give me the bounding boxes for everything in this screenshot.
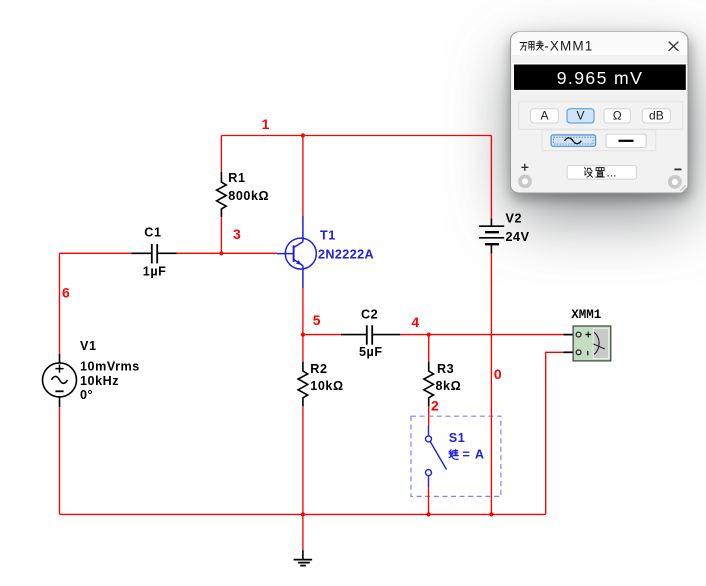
S1 key label 键 = A — [449, 450, 458, 460]
wire: V1 bottom — [59, 407, 61, 514]
XMM1 minus lead — [563, 351, 576, 353]
button A — [531, 109, 559, 123]
wire: V1 to C1 — [60, 252, 132, 254]
svg-text:R1: R1 — [228, 171, 245, 185]
svg-text:1: 1 — [262, 116, 270, 132]
dialog title 万用表-XMM1 — [520, 41, 543, 51]
svg-text:-XMM1: -XMM1 — [544, 39, 593, 54]
svg-text:10mVrms: 10mVrms — [80, 359, 140, 373]
instrument XMM1 icon — [573, 326, 611, 361]
svg-text:10kHz: 10kHz — [80, 374, 119, 388]
junction dot net0 bottom — [489, 512, 493, 516]
dialog panel body — [511, 32, 689, 193]
dialog close button X — [669, 42, 678, 51]
wire: R1 bottom to node 3 — [220, 217, 222, 253]
capacitor C1 — [132, 244, 177, 263]
svg-text:0°: 0° — [80, 388, 93, 402]
svg-text:5µF: 5µF — [359, 345, 383, 359]
plus terminal label — [521, 164, 528, 171]
svg-text:9.965 mV: 9.965 mV — [557, 68, 644, 88]
junction dot R2 ground — [301, 512, 305, 516]
wire: XMM1 minus down to net 0 — [546, 352, 564, 514]
mode group box — [519, 102, 683, 129]
svg-text:...: ... — [607, 165, 617, 179]
wire: R1 top — [220, 136, 222, 172]
wire: collector to net 1 — [302, 136, 304, 217]
svg-text:8kΩ: 8kΩ — [436, 379, 462, 393]
svg-text:dB: dB — [649, 109, 664, 123]
resize grip — [681, 186, 687, 192]
resistor R2 — [298, 362, 308, 407]
AC/DC group box — [542, 130, 656, 151]
wire: V2 top — [490, 136, 492, 219]
wire: node 4 to XMM1 plus — [429, 334, 564, 336]
svg-text:S1: S1 — [449, 431, 465, 445]
svg-text:800kΩ: 800kΩ — [228, 189, 269, 203]
svg-text:V1: V1 — [80, 339, 97, 353]
switch S1 selection box — [411, 416, 501, 496]
settings button 设置... — [567, 165, 637, 179]
button dB — [642, 109, 670, 123]
wire: top net 1 horizontal — [221, 135, 491, 137]
plus terminal jack — [518, 175, 532, 189]
wire: ground stub — [302, 514, 304, 550]
button Ohm — [604, 109, 631, 123]
wire: V2 bottom net 0 — [490, 254, 492, 515]
svg-text:C2: C2 — [361, 307, 378, 321]
svg-text:V: V — [576, 109, 584, 123]
node 1 junction dot — [301, 133, 305, 137]
svg-text:0: 0 — [494, 366, 502, 382]
node 4 junction dot — [427, 333, 431, 337]
capacitor C2 — [341, 325, 401, 344]
svg-text:R2: R2 — [310, 362, 327, 376]
junction dot S1 bottom — [426, 512, 430, 516]
svg-text:2: 2 — [431, 397, 439, 413]
switch S1 — [426, 426, 447, 488]
source V1 — [43, 354, 77, 407]
button DC (dash) — [606, 134, 646, 147]
svg-text:Ω: Ω — [613, 109, 622, 123]
wire: bottom net 0 horizontal — [60, 513, 546, 515]
transistor T1 — [277, 216, 316, 288]
svg-text:10kΩ: 10kΩ — [310, 379, 343, 393]
svg-text:XMM1: XMM1 — [571, 308, 601, 322]
wire: R2 top — [302, 335, 304, 362]
svg-text:V2: V2 — [506, 212, 523, 226]
svg-text:A: A — [540, 109, 548, 123]
wire: S1 bottom — [428, 488, 430, 515]
meter display 9.965 mV — [513, 63, 687, 91]
svg-text:C1: C1 — [144, 225, 161, 239]
svg-text:5: 5 — [313, 312, 321, 328]
wire: node 3 to base — [221, 252, 277, 254]
svg-text:6: 6 — [62, 284, 70, 300]
XMM1 plus lead — [563, 334, 576, 336]
button V (selected) — [567, 109, 594, 123]
wire: node 6 vertical — [59, 253, 61, 353]
wire: node 5 to C2 — [303, 334, 341, 336]
battery V2 — [479, 219, 504, 254]
svg-text:24V: 24V — [506, 230, 530, 244]
node 3 junction dot — [219, 251, 223, 255]
minus terminal label — [674, 168, 681, 170]
svg-text:= A: = A — [463, 448, 485, 462]
wire: C2 to node 4 — [400, 334, 428, 336]
svg-text:3: 3 — [233, 226, 241, 242]
wire: C1 to node 3 — [177, 252, 222, 254]
resistor R1 — [217, 172, 227, 217]
minus terminal jack — [668, 175, 682, 189]
svg-text:R3: R3 — [437, 362, 454, 376]
wire: R2 bottom — [302, 406, 304, 514]
resistor R3 — [424, 362, 434, 407]
wire: R3 bottom node 2 — [428, 406, 430, 425]
wire: R3 top — [428, 335, 430, 362]
svg-text:2N2222A: 2N2222A — [318, 248, 374, 262]
wire: emitter to node 5 — [302, 288, 304, 334]
ground — [294, 550, 313, 565]
svg-text:4: 4 — [411, 314, 419, 330]
svg-text:T1: T1 — [320, 229, 336, 243]
svg-text:1µF: 1µF — [143, 265, 167, 279]
button AC (sine, selected) — [551, 135, 596, 146]
node 5 junction dot — [301, 333, 305, 337]
